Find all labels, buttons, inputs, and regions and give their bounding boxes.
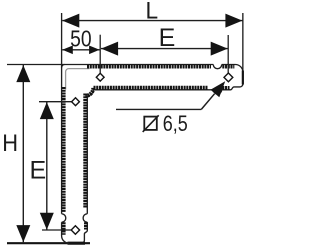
- svg-text:6,5: 6,5: [163, 111, 188, 136]
- svg-text:E: E: [30, 156, 47, 184]
- svg-text:H: H: [2, 130, 18, 157]
- svg-text:L: L: [146, 0, 159, 25]
- svg-text:E: E: [159, 24, 176, 52]
- svg-text:50: 50: [70, 26, 92, 52]
